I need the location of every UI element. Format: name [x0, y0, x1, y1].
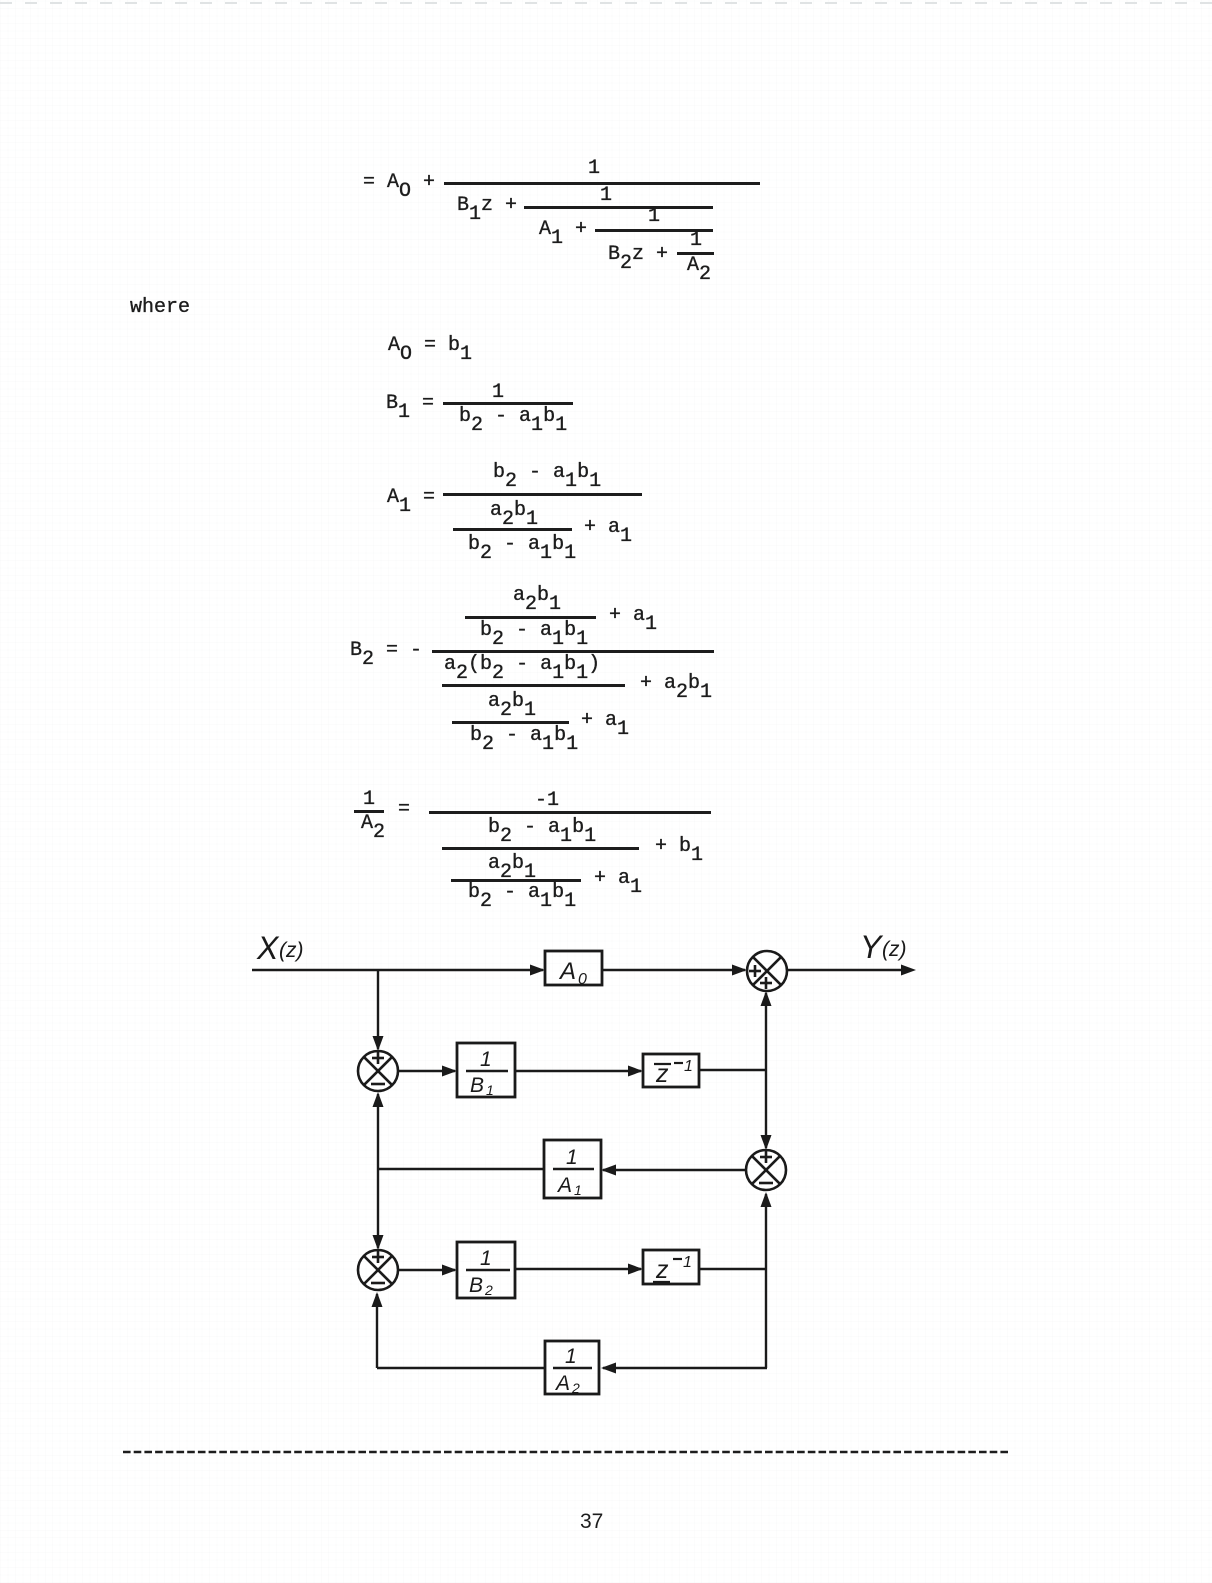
block A0: [545, 951, 602, 988]
block 1/B1: [457, 1043, 515, 1098]
wire 1/A2 output to left: [377, 1367, 545, 1369]
wire right bus down into S2: [765, 1070, 767, 1148]
wire 1/B1 to z1: [515, 1070, 641, 1072]
wire arrowhead into 1/A1 right edge: [601, 1165, 616, 1176]
wire right bus down to bottom feedback: [765, 1269, 767, 1368]
EQUATION 0 : continued fraction: [588, 159, 600, 179]
wire arrowhead into S3 bottom: [372, 1292, 383, 1307]
wire arrowhead into A0: [530, 965, 545, 976]
wire A0 to summer S0: [602, 969, 745, 971]
svg-text:B: B: [470, 1074, 484, 1097]
block 1/A1: [544, 1140, 601, 1198]
svg-text:2: 2: [484, 1282, 493, 1298]
wire arrowhead into 1/B1: [442, 1066, 457, 1077]
page number: [580, 1511, 603, 1532]
EQ2 : B1 = 1/(b2 - a1b1): [386, 394, 434, 414]
wire arrowhead into S0: [732, 965, 747, 976]
wire arrowhead into 1/B2: [442, 1265, 457, 1276]
block 1/A2: [545, 1341, 599, 1396]
summer S2 (A1 feedback adder): [746, 1150, 786, 1190]
where: [130, 298, 190, 318]
summer S0 (output adder): [747, 951, 787, 991]
svg-text:A: A: [556, 1174, 572, 1197]
svg-text:(z): (z): [279, 939, 304, 962]
wire main input line: [252, 969, 543, 971]
wire left bus up into S1 bottom: [377, 1094, 379, 1169]
svg-text:1: 1: [480, 1247, 492, 1270]
svg-text:B: B: [469, 1274, 483, 1297]
wire right bus up into S0: [765, 993, 767, 1070]
wire arrowhead into S1 bottom: [373, 1092, 384, 1107]
node X(z) input label: [256, 930, 304, 966]
svg-text:1: 1: [683, 1254, 692, 1271]
svg-text:A: A: [554, 1372, 570, 1395]
EQ1 : A0 = b1: [388, 336, 472, 356]
wire branch down from input to S1: [377, 970, 379, 1049]
wire bottom feedback line to 1/A2: [603, 1367, 767, 1369]
node Y(z) output label: [860, 929, 907, 965]
svg-text:z: z: [655, 1256, 669, 1284]
wire S1 to 1/B1: [398, 1070, 455, 1072]
svg-text:1: 1: [574, 1182, 582, 1198]
wire 1/A1 output to left bus: [377, 1168, 544, 1170]
wire z2 to right bus: [699, 1268, 767, 1270]
dashed separator rule: [0, 1447, 1212, 1457]
svg-text:1: 1: [684, 1058, 693, 1075]
wire z1 to right bus: [699, 1069, 767, 1071]
wire arrowhead output: [901, 965, 916, 976]
svg-text:X: X: [256, 930, 280, 966]
summer S3 (second difference node): [358, 1250, 398, 1290]
block z^-1 lower: [643, 1250, 699, 1284]
summer S1 (first difference node): [358, 1051, 398, 1091]
svg-text:1: 1: [480, 1048, 492, 1071]
svg-text:0: 0: [578, 971, 587, 988]
svg-text:2: 2: [571, 1380, 580, 1396]
wire S2 to 1/A1: [603, 1169, 746, 1171]
svg-text:(z): (z): [882, 938, 907, 961]
block 1/B2: [457, 1242, 515, 1298]
EQ5 : 1/A2 = ...: [363, 790, 375, 810]
top faint dashed scan edge: [0, 2, 1212, 4]
wire left bus down into S3 top: [377, 1169, 379, 1248]
svg-text:1: 1: [486, 1082, 494, 1098]
wire arrowhead into S0 bottom: [761, 991, 772, 1006]
svg-text:1: 1: [566, 1146, 578, 1169]
svg-text:A: A: [558, 958, 576, 985]
EQ3 : A1 = ...: [387, 488, 435, 508]
wire arrowhead into S1 top: [373, 1036, 384, 1051]
block z^-1 upper: [643, 1054, 699, 1088]
wire arrowhead into z1: [628, 1066, 643, 1077]
EQ4 : B2 = - ...: [350, 641, 422, 661]
wire arrowhead into 1/A2 right edge: [601, 1363, 616, 1374]
svg-text:1: 1: [565, 1345, 577, 1368]
svg-text:Y: Y: [860, 929, 884, 965]
wire arrowhead into S2 bottom: [761, 1192, 772, 1207]
wire arrowhead into S3 top: [373, 1235, 384, 1250]
wire 1/B2 to z2: [515, 1268, 641, 1270]
wire output line to Y(z): [787, 969, 912, 971]
wire S3 to 1/B2: [398, 1269, 455, 1271]
wire up into S3 bottom: [376, 1294, 378, 1368]
wire right bus up into S2 bottom: [765, 1194, 767, 1269]
wire arrowhead into S2 top: [761, 1135, 772, 1150]
wire arrowhead into z2: [628, 1264, 643, 1275]
